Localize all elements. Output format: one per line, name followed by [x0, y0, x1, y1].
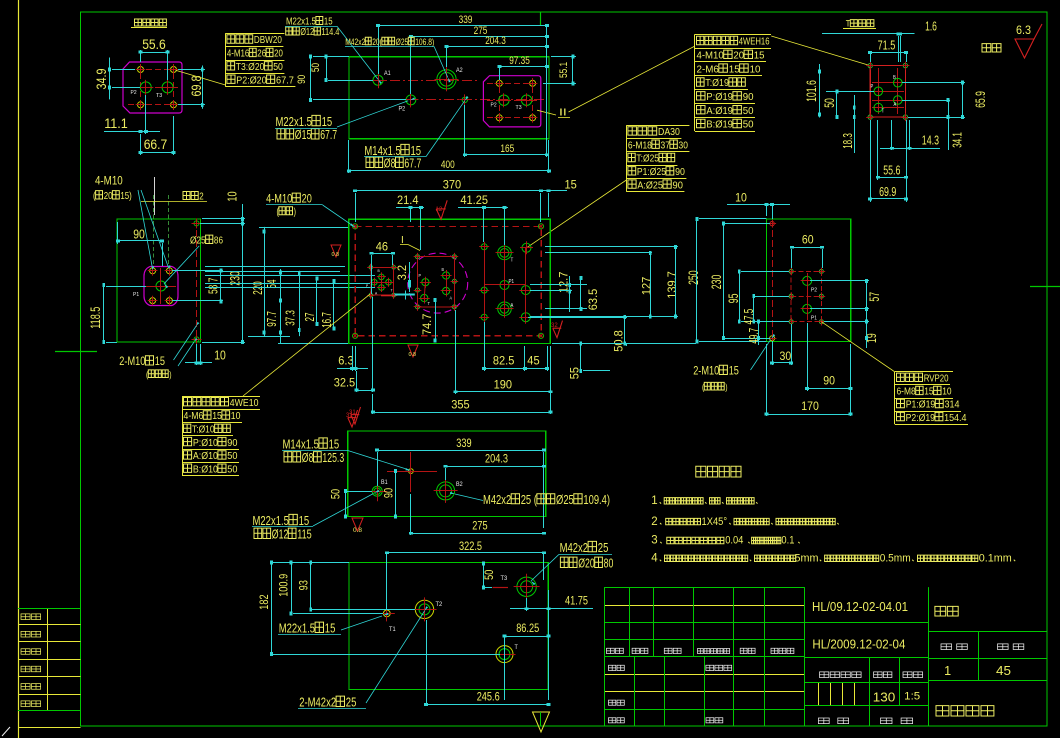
bolt hole bottom-left	[138, 102, 144, 108]
roughness 0.8 left	[331, 245, 341, 257]
svg-text:20: 20	[104, 190, 113, 202]
company 液压中心	[936, 706, 949, 716]
corner hole BL	[353, 333, 358, 338]
svg-text:314: 314	[945, 399, 960, 411]
svg-text:21.4: 21.4	[397, 193, 419, 207]
dim 139.7 (rot)	[665, 271, 679, 299]
svg-text:15: 15	[565, 177, 578, 191]
callout box DA30	[626, 125, 689, 127]
svg-text:45: 45	[527, 354, 540, 368]
dim 19 (rot)	[863, 333, 879, 343]
svg-text:3: 3	[651, 535, 657, 547]
svg-text:0.8: 0.8	[353, 527, 362, 534]
hole bottom-left	[770, 336, 775, 341]
svg-text:55: 55	[568, 367, 582, 380]
svg-text:P2:Ø20: P2:Ø20	[236, 74, 266, 86]
centering mark right	[1030, 286, 1060, 288]
hole M14	[462, 97, 467, 102]
dim 74.7 (rot)	[420, 313, 434, 335]
svg-text:): )	[725, 382, 727, 393]
dim 230 (rot)	[227, 271, 242, 286]
svg-text:4WE10: 4WE10	[230, 397, 259, 409]
centering mark left	[55, 351, 97, 353]
svg-text:31: 31	[346, 413, 353, 419]
svg-text:11.1: 11.1	[104, 116, 128, 131]
dim 118.5 (rot)	[88, 307, 103, 329]
svg-text:32: 32	[551, 323, 558, 329]
svg-text:60: 60	[802, 233, 814, 247]
svg-text:T:Ø25: T:Ø25	[636, 153, 659, 165]
callout box 4WEH16	[695, 34, 771, 36]
svg-text:2: 2	[651, 516, 657, 528]
svg-text:30: 30	[679, 139, 689, 151]
svg-text:0.5mm: 0.5mm	[880, 553, 911, 565]
dim 3.2 (rot)	[395, 265, 409, 281]
4WE10 ports	[379, 274, 385, 280]
top view body (green rect)	[349, 57, 549, 139]
svg-text:15: 15	[729, 63, 740, 75]
svg-text:P: P	[366, 283, 368, 288]
svg-text:109.4): 109.4)	[583, 493, 610, 507]
hidden stud lines	[153, 195, 155, 267]
T-face corner bolts	[868, 63, 872, 67]
centering mark bottom	[533, 712, 550, 732]
svg-text:Ø25: Ø25	[190, 235, 206, 247]
bolt hole top-right	[171, 67, 177, 73]
svg-text:2-M10: 2-M10	[119, 356, 145, 368]
roughness 0.8 below	[408, 345, 418, 357]
svg-text:34.1: 34.1	[950, 132, 965, 148]
svg-text:B1: B1	[381, 480, 388, 486]
hole bottom-right	[194, 337, 199, 342]
svg-text:139.7: 139.7	[665, 271, 679, 299]
label 丝堵	[183, 192, 190, 200]
svg-text:T3: T3	[516, 105, 522, 111]
section mark (cyan thick)	[395, 294, 415, 296]
svg-text:1X45°: 1X45°	[702, 516, 728, 528]
svg-text:Ø8: Ø8	[384, 156, 396, 171]
svg-text:T:Ø19: T:Ø19	[705, 77, 729, 89]
flange II centerlines	[487, 83, 537, 85]
svg-text:P2: P2	[811, 288, 817, 294]
flange II bolts	[496, 80, 502, 86]
svg-text:P1:Ø25: P1:Ø25	[637, 166, 666, 178]
svg-text:90: 90	[296, 75, 308, 84]
svg-text:M22x1.5: M22x1.5	[286, 17, 316, 28]
leader DA30	[527, 180, 627, 248]
svg-text:114.4: 114.4	[321, 27, 339, 38]
svg-text:): )	[169, 370, 171, 381]
svg-text:10: 10	[225, 192, 240, 202]
svg-text:41.75: 41.75	[565, 596, 588, 608]
svg-text:57: 57	[866, 292, 882, 302]
dim 50 (rot)	[331, 489, 343, 499]
svg-text:46: 46	[376, 240, 389, 254]
dim 47.5 (rot)	[741, 309, 756, 325]
svg-text:55.6: 55.6	[142, 37, 166, 52]
svg-text:25 (: 25 (	[521, 493, 538, 507]
hole B1	[372, 486, 382, 496]
svg-text:15: 15	[324, 17, 333, 28]
svg-text:T2: T2	[436, 602, 443, 608]
svg-text:A:Ø19: A:Ø19	[706, 105, 733, 117]
svg-text:A:Ø25: A:Ø25	[637, 179, 663, 191]
svg-text:P1:Ø19: P1:Ø19	[906, 399, 936, 411]
svg-text:M42x2: M42x2	[483, 493, 511, 507]
svg-text:97.35: 97.35	[509, 55, 530, 67]
dim 230 (rot)	[708, 275, 724, 290]
svg-text:32.5: 32.5	[334, 376, 356, 390]
svg-text:27: 27	[302, 313, 317, 322]
dim 50.8 (rot)	[612, 330, 626, 352]
flange II port T3	[521, 95, 531, 105]
4WE10 connectors	[381, 277, 383, 288]
dim 182 (rot)	[259, 594, 271, 609]
svg-text:15: 15	[754, 50, 765, 62]
svg-text:204.3: 204.3	[485, 35, 506, 47]
svg-text:50: 50	[310, 63, 322, 72]
flange centerlines (red dashed)	[128, 69, 178, 71]
svg-text:15: 15	[729, 366, 739, 378]
dim 50 (rot)	[484, 570, 496, 580]
svg-text:95: 95	[725, 293, 741, 303]
svg-text:50.8: 50.8	[612, 330, 626, 352]
svg-text:10: 10	[231, 410, 241, 422]
svg-text:63.5: 63.5	[586, 288, 600, 310]
svg-text:HL/2009.12-02-04: HL/2009.12-02-04	[812, 638, 905, 652]
svg-text:P:Ø19: P:Ø19	[706, 91, 733, 103]
dim 100.9 (rot)	[278, 574, 290, 597]
svg-text:10: 10	[750, 63, 761, 75]
svg-text:B:Ø19: B:Ø19	[706, 119, 733, 131]
dim 55 (rot)	[568, 367, 582, 380]
svg-text:67.7: 67.7	[320, 127, 337, 142]
svg-text:50: 50	[331, 489, 343, 499]
dim 34.1 (rot)	[950, 132, 965, 148]
bolt hole bottom-right	[171, 102, 177, 108]
dim 10 top (rot)	[225, 192, 240, 202]
bottom view body (green rect)	[349, 563, 548, 690]
svg-text:50: 50	[743, 119, 754, 131]
svg-text:90: 90	[227, 437, 237, 449]
svg-text:T: T	[511, 258, 514, 264]
dim 58.7 (rot)	[206, 278, 221, 294]
svg-text:182: 182	[259, 594, 271, 609]
hole top-left	[770, 221, 774, 225]
svg-text:20: 20	[274, 48, 283, 60]
svg-text:130: 130	[873, 690, 896, 705]
svg-text:65.9: 65.9	[972, 91, 988, 108]
svg-text:55.1: 55.1	[558, 62, 570, 78]
svg-text:86: 86	[214, 235, 223, 247]
svg-text:A: A	[375, 291, 377, 296]
roughness 31 top	[348, 410, 358, 427]
svg-text:204.3: 204.3	[485, 454, 508, 466]
dim 12.7 (rot)	[557, 271, 571, 293]
hole T	[496, 646, 513, 663]
leader to DBW20 callout	[176, 70, 225, 85]
blob bolts	[150, 268, 156, 274]
svg-text:4-M6: 4-M6	[184, 410, 204, 422]
svg-text:2-M10: 2-M10	[693, 366, 719, 378]
svg-text:P2:Ø19: P2:Ø19	[906, 412, 936, 424]
svg-text:100.9: 100.9	[278, 574, 290, 597]
ext lines from left view to main	[205, 266, 345, 268]
svg-text:T1: T1	[389, 627, 396, 633]
svg-text:26: 26	[257, 48, 266, 60]
roughness 12 on top edge	[436, 200, 447, 219]
svg-text:0.1mm: 0.1mm	[979, 553, 1012, 565]
svg-text:4-M10: 4-M10	[697, 50, 724, 62]
svg-text:DBW20: DBW20	[254, 34, 282, 46]
svg-text:34.9: 34.9	[94, 69, 109, 90]
svg-text:15: 15	[325, 621, 336, 636]
svg-text:90: 90	[384, 488, 396, 498]
title block grid	[604, 587, 804, 589]
detail circle I (magenta dashed)	[408, 253, 468, 313]
signature table	[47, 608, 49, 710]
svg-text:20: 20	[733, 50, 744, 62]
svg-text:118.5: 118.5	[88, 307, 103, 329]
centerline row P (red)	[354, 99, 545, 101]
roughness 31 bottom-left	[351, 407, 361, 424]
svg-text:55.6: 55.6	[883, 163, 900, 178]
svg-text:5mm: 5mm	[795, 553, 819, 565]
svg-text:P: P	[419, 273, 422, 278]
dim 55.1 (rot)	[558, 62, 570, 78]
svg-text:P2: P2	[399, 107, 406, 113]
dim 101.6 (rot)	[803, 80, 819, 102]
svg-text:50: 50	[743, 105, 754, 117]
svg-text:6-M18: 6-M18	[628, 139, 652, 151]
callout box DBW20	[225, 33, 284, 35]
svg-text:115: 115	[297, 527, 312, 542]
svg-text:Ø25: Ø25	[556, 493, 574, 507]
svg-text:3.2: 3.2	[395, 265, 409, 281]
svg-text:1:5: 1:5	[904, 691, 920, 703]
svg-text:4: 4	[651, 553, 658, 565]
svg-text:69.9: 69.9	[879, 184, 896, 199]
hole T3	[517, 577, 536, 596]
svg-text:4-M10: 4-M10	[266, 193, 292, 205]
svg-text:T3: T3	[156, 93, 162, 99]
svg-text:1: 1	[944, 664, 951, 678]
svg-text:RVP20: RVP20	[924, 373, 949, 385]
leader 4WEH16 to T view	[771, 36, 870, 66]
roughness 0.8 bottom	[352, 518, 363, 531]
svg-text:25: 25	[598, 540, 609, 555]
svg-text:50: 50	[273, 61, 283, 73]
svg-text:90: 90	[133, 226, 145, 241]
hole T1	[383, 610, 390, 617]
svg-text:P:Ø10: P:Ø10	[193, 437, 218, 449]
T-face pattern rect (red)	[870, 66, 905, 118]
left view body (green rect)	[117, 219, 201, 342]
svg-text:4-M10: 4-M10	[95, 176, 123, 188]
svg-text:Ø15: Ø15	[295, 127, 312, 142]
svg-text:50: 50	[821, 98, 837, 108]
hole mid small	[409, 469, 414, 474]
B view body (green rect)	[348, 431, 546, 516]
flange II (magenta)	[483, 76, 540, 127]
svg-text:69.8: 69.8	[189, 76, 204, 97]
svg-text:90: 90	[675, 166, 685, 178]
port T3 circle	[162, 82, 173, 93]
svg-text:230: 230	[708, 275, 724, 290]
flange II port P2	[499, 95, 509, 105]
main inner dashed rect (red)	[355, 227, 541, 336]
svg-text:170: 170	[801, 399, 819, 413]
dim 50 (rot)	[310, 63, 322, 72]
svg-text:II: II	[559, 108, 567, 119]
svg-text:4WEH16: 4WEH16	[739, 36, 770, 48]
corner hole TR	[538, 224, 543, 229]
port T	[874, 103, 883, 112]
4WEH16 pattern bolts	[416, 255, 420, 259]
svg-text:355: 355	[451, 398, 470, 412]
svg-text:4-M16: 4-M16	[227, 48, 250, 60]
red emphasis under 4WE10	[381, 295, 395, 297]
svg-text:125.3: 125.3	[322, 450, 344, 465]
corner hole BR	[538, 333, 543, 338]
svg-text:30: 30	[780, 349, 792, 363]
svg-text:154.4: 154.4	[944, 412, 967, 424]
svg-text:Ø12: Ø12	[300, 27, 314, 38]
svg-text:82.5: 82.5	[493, 354, 515, 368]
callout box 4WE10	[182, 396, 260, 398]
svg-text:74.7: 74.7	[420, 313, 434, 335]
dim 57 (rot)	[866, 292, 882, 302]
dim 18.3 (rot)	[840, 133, 855, 149]
svg-text:67.7: 67.7	[404, 156, 421, 171]
svg-text:Ø12: Ø12	[272, 527, 289, 542]
svg-text:250: 250	[685, 270, 701, 285]
RVP20 pattern rect (red dashed)	[791, 271, 821, 321]
svg-text:14.3: 14.3	[922, 133, 939, 148]
svg-text:25: 25	[346, 695, 357, 710]
port P1 circle	[156, 281, 166, 291]
svg-text:M42x2: M42x2	[560, 540, 589, 555]
svg-text:37: 37	[661, 139, 671, 151]
svg-text:T:Ø10: T:Ø10	[192, 424, 215, 436]
svg-text:6-M8: 6-M8	[897, 386, 916, 398]
leader to RVP20	[821, 322, 895, 372]
dim 49.7 (rot)	[746, 328, 761, 344]
port P1	[803, 304, 812, 313]
svg-text:245.6: 245.6	[477, 691, 500, 703]
svg-text:50: 50	[227, 463, 237, 475]
hole top-right	[194, 221, 199, 226]
dim 250 (rot)	[685, 270, 701, 285]
dim 63.5 (rot)	[586, 288, 600, 310]
dim 65.9 (rot)	[972, 91, 988, 108]
svg-text:15): 15)	[120, 190, 131, 202]
svg-text:10: 10	[942, 386, 951, 398]
hole A1	[373, 75, 383, 85]
svg-text:): )	[294, 207, 296, 218]
svg-text:P2: P2	[131, 90, 137, 96]
svg-text:6.3: 6.3	[1016, 23, 1031, 37]
svg-text:T: T	[882, 109, 885, 115]
port A	[894, 96, 903, 105]
svg-text:0.8: 0.8	[409, 352, 417, 358]
svg-text:190: 190	[494, 377, 513, 391]
callout box RVP20	[895, 371, 953, 373]
svg-text:339: 339	[459, 14, 473, 26]
svg-text:P2: P2	[491, 103, 497, 109]
svg-text:T: T	[515, 645, 519, 651]
red dashed line left	[772, 220, 774, 340]
hole T2	[415, 600, 433, 618]
corner hole TL	[353, 224, 358, 229]
dim 95 (rot)	[725, 293, 741, 303]
svg-text:66.7: 66.7	[144, 137, 168, 152]
svg-text:275: 275	[472, 520, 487, 532]
flange body (magenta)	[123, 62, 182, 113]
svg-text:400: 400	[441, 159, 455, 171]
svg-text:20: 20	[302, 193, 312, 205]
svg-text:Ø20: Ø20	[578, 556, 595, 571]
DA30 hole grid	[481, 244, 487, 250]
4WEH16 ports	[422, 279, 429, 286]
leader 4WEH16 to II	[569, 46, 696, 112]
svg-text:P1: P1	[133, 292, 139, 298]
svg-text:M22x1.5: M22x1.5	[279, 621, 315, 636]
dim 34.9	[94, 69, 109, 90]
4WEH16 connectors	[424, 282, 425, 298]
svg-text:80: 80	[604, 556, 614, 571]
svg-text:0.1: 0.1	[781, 535, 794, 547]
port P	[874, 87, 883, 96]
hole B2	[437, 482, 455, 500]
svg-text:B2: B2	[456, 482, 463, 488]
svg-text:1: 1	[651, 495, 657, 507]
4WE10 pattern rect (red)	[371, 267, 394, 295]
port B	[894, 78, 903, 87]
svg-text:0.8: 0.8	[332, 252, 340, 258]
ext lines right	[545, 246, 678, 248]
svg-text:58.7: 58.7	[206, 278, 221, 294]
svg-text:P1: P1	[811, 316, 817, 322]
svg-text:339: 339	[456, 438, 471, 450]
svg-text:12: 12	[436, 207, 443, 213]
svg-text:90: 90	[743, 91, 754, 103]
svg-text:93: 93	[299, 580, 311, 590]
svg-text:6.3: 6.3	[338, 354, 354, 368]
svg-text:A:Ø10: A:Ø10	[193, 450, 218, 462]
hole P2 small	[406, 95, 416, 105]
dim 90 (rot)	[384, 488, 396, 498]
svg-text:90: 90	[673, 179, 684, 191]
corner mark bottom-left	[2, 727, 10, 736]
svg-text:67.7: 67.7	[276, 74, 294, 86]
hole A2	[437, 70, 456, 89]
svg-text:165: 165	[500, 143, 514, 155]
svg-text:2: 2	[199, 192, 204, 203]
RVP20 bolts	[789, 269, 793, 273]
svg-text:15: 15	[212, 410, 222, 422]
dim 93 (rot)	[299, 580, 311, 590]
main view body (green rect)	[349, 219, 551, 343]
svg-text:B:Ø10: B:Ø10	[193, 463, 218, 475]
svg-text:41.25: 41.25	[460, 193, 488, 207]
svg-text:97.7: 97.7	[264, 311, 279, 327]
qty/material headers	[941, 644, 952, 650]
red dashed line right	[196, 220, 198, 341]
svg-text:101.6: 101.6	[803, 80, 819, 102]
leader 4WE10	[243, 294, 370, 396]
svg-text:71.5: 71.5	[878, 38, 896, 53]
